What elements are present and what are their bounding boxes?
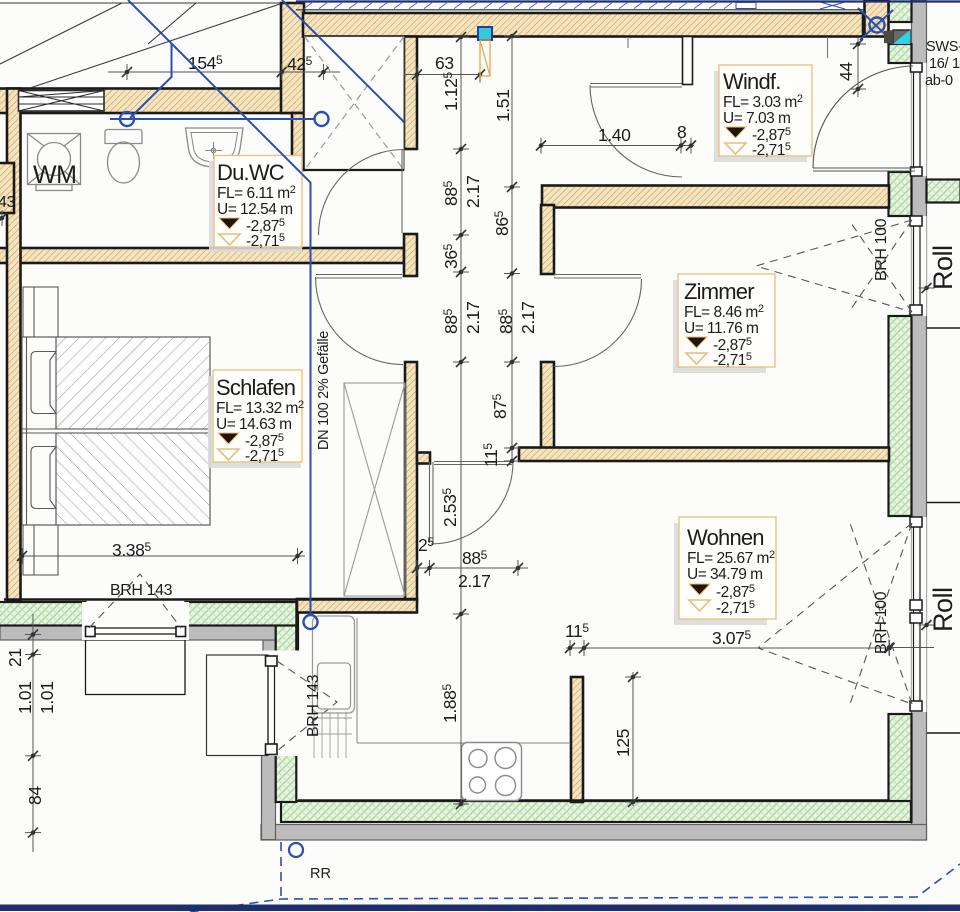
green west kitchen wall upper (276, 602, 297, 656)
svg-text:8: 8 (677, 122, 686, 142)
svg-text:BRH 100: BRH 100 (873, 591, 890, 654)
kitchen sink (311, 616, 355, 758)
svg-text:SWS-: SWS- (926, 39, 960, 55)
interior face lines (4, 600, 889, 801)
left chain vertical (32, 614, 34, 852)
svg-text:WM: WM (33, 161, 76, 189)
Roll texts (928, 245, 958, 632)
kitchen NW interior face (296, 612, 299, 657)
dim chain x512 vertical (511, 36, 513, 461)
door Windf./corridor (590, 84, 682, 178)
door Wohnen (from corridor) (430, 462, 514, 545)
mattress 1 hatched (56, 337, 210, 429)
nightstand bottom (23, 525, 58, 575)
mattress 2 hatched (56, 433, 210, 525)
thin partition Windf. (683, 37, 693, 85)
svg-text:Windf.: Windf. (723, 69, 781, 94)
wall W1 bathroom top (0, 89, 293, 114)
navy neighbour wall bottom (0, 905, 960, 912)
svg-text:DN 100 2% Gefälle: DN 100 2% Gefälle (316, 331, 332, 450)
dim line 63 (404, 74, 480, 76)
svg-text:63: 63 (435, 53, 454, 73)
neighbour separator lines right (927, 328, 960, 733)
grey band west kitchen wall (263, 640, 276, 656)
svg-text:44: 44 (836, 62, 856, 81)
wall W6 Zimmer top (542, 186, 889, 208)
neighbour wall line top left (0, 2, 281, 4)
svg-text:BRH 143: BRH 143 (305, 674, 322, 737)
svg-text:2.17: 2.17 (518, 302, 538, 334)
toilet (105, 130, 142, 184)
svg-text:BRH 143: BRH 143 (110, 582, 173, 599)
svg-text:16/ 1: 16/ 1 (929, 56, 960, 72)
entrance door leaf + swing (813, 167, 915, 169)
svg-text:BRH 100: BRH 100 (873, 218, 890, 281)
wall W5 Du.WC / Schlafen divider (0, 248, 404, 263)
Schlafen south wall east tan part (297, 599, 417, 613)
dim line 44 (857, 38, 859, 97)
label box Zimmer (673, 274, 775, 373)
svg-text:Zimmer: Zimmer (684, 279, 754, 304)
svg-text:FL= 6.11 m2: FL= 6.11 m2 (217, 184, 296, 202)
green bottom wall (281, 801, 911, 822)
label box Windf. (714, 65, 812, 162)
neighbour unit blue marks top (296, 0, 960, 2)
svg-text:U= 14.63 m: U= 14.63 m (216, 416, 292, 433)
Schlafen right wall (405, 362, 417, 602)
door Zimmer (554, 275, 642, 367)
bed frame (22, 337, 210, 525)
nightstand top (23, 287, 58, 337)
svg-text:125: 125 (613, 729, 633, 757)
door Schlafen (316, 275, 404, 365)
right margin texts (925, 39, 960, 89)
wall connector vertical at step (281, 3, 304, 113)
horizontal pipe in bathroom (110, 118, 314, 120)
grey band below Schlafen south wall (0, 626, 276, 641)
neighbour stair diagonals (0, 3, 122, 64)
label box Schlafen (208, 370, 304, 468)
wall W3 top right (303, 13, 863, 37)
svg-text:84: 84 (25, 786, 45, 805)
tan pillar top right with riser (865, 0, 889, 37)
dashed drain to RR (280, 842, 282, 899)
svg-text:U= 7.03 m: U= 7.03 m (723, 110, 790, 127)
windows: Zimmer window right (756, 216, 927, 316)
svg-text:Roll: Roll (928, 245, 958, 290)
svg-text:1.51: 1.51 (493, 90, 513, 122)
vent duct cyan + orange in corridor (478, 27, 492, 76)
svg-text:1.40: 1.40 (598, 125, 631, 145)
svg-text:2.17: 2.17 (463, 302, 483, 334)
vent cyan right wall (884, 30, 910, 44)
riser circle WM (120, 112, 134, 126)
svg-text:2.17: 2.17 (463, 176, 483, 208)
wall stub corridor/Zimmer upper (541, 205, 554, 274)
svg-text:RR: RR (310, 866, 331, 882)
svg-text:2.17: 2.17 (458, 571, 490, 591)
label box Du.WC (209, 156, 302, 253)
bottom wall interior face (298, 799, 889, 802)
svg-text:43: 43 (0, 194, 15, 211)
Schlafen floor line (4, 598, 417, 601)
window ticks right (889, 647, 934, 649)
green Schlafen south wall west part (0, 602, 86, 626)
windows: Wohnen window right (758, 517, 927, 712)
kitchen counter lines (357, 618, 570, 743)
pillow 1 (31, 352, 56, 414)
door Du.WC (swings NW) (319, 150, 405, 236)
svg-text:FL= 13.32 m2: FL= 13.32 m2 (216, 399, 304, 417)
svg-text:U= 12.54 m: U= 12.54 m (217, 201, 293, 218)
riser circle kitchen (304, 615, 318, 629)
wardrobe in Schlafen (344, 383, 405, 596)
T-cap at Du.WC/Schlafen doors (404, 234, 417, 276)
freestanding kitchen wall (571, 677, 583, 802)
green pier right top (889, 0, 912, 22)
wall strip left of shaft (292, 113, 304, 170)
washing machine WM (28, 134, 81, 191)
grey band bottom exterior (261, 825, 927, 841)
kitchen stove (462, 743, 522, 801)
diagonal B to shaft (282, 0, 404, 122)
svg-text:21: 21 (5, 648, 25, 667)
green Schlafen south wall east part (185, 602, 296, 626)
dim line 11.5 / 3.07.5 (566, 647, 893, 649)
left wall bathroom/Schlafen (7, 89, 21, 601)
riser circle top right (870, 18, 885, 33)
green pier right (Windf/Zimmer) with arm (889, 172, 912, 216)
riser circle shaft left (315, 112, 329, 126)
svg-text:Schlafen: Schlafen (216, 375, 295, 400)
dim line door Wohnen 88.5 (417, 567, 528, 569)
wall W7 corridor/Zimmer lower (541, 362, 554, 454)
green west kitchen wall lower (276, 755, 297, 802)
rotated dim texts (0, 62, 890, 805)
svg-text:U= 11.76 m: U= 11.76 m (684, 320, 758, 337)
dim line 3.38.5 (22, 555, 305, 557)
svg-text:1.01: 1.01 (37, 682, 57, 714)
windows: right wall entrance french door (628, 37, 927, 176)
pier W4 right of shaft (404, 37, 417, 150)
dim line 1.40 (541, 145, 694, 147)
svg-text:1.01: 1.01 (15, 682, 35, 714)
green corner pier bottom right (889, 714, 912, 822)
dim line 125 (632, 672, 634, 806)
svg-text:Wohnen: Wohnen (687, 525, 764, 550)
door nib west of Wohnen door (417, 453, 430, 464)
label box Wohnen (674, 517, 776, 625)
svg-text:Roll: Roll (928, 587, 958, 632)
wash basin (186, 128, 244, 167)
green block below cyan (889, 44, 912, 63)
sewer diagonal C + vertical DN100 (128, 0, 311, 615)
svg-text:Du.WC: Du.WC (217, 160, 285, 185)
svg-text:FL= 3.03 m2: FL= 3.03 m2 (723, 93, 803, 111)
left edge neighbour pier (0, 163, 14, 213)
windows: kitchen west window (207, 651, 338, 757)
branch to WM riser (130, 44, 172, 119)
dim chain x461 vertical (460, 37, 462, 804)
svg-text:FL= 8.46 m2: FL= 8.46 m2 (684, 303, 764, 321)
green pier right long (Zimmer/Wohnen) (889, 316, 912, 516)
svg-text:U= 34.79 m: U= 34.79 m (687, 566, 763, 583)
pillow 2 (31, 447, 56, 509)
svg-text:ab-0: ab-0 (925, 73, 953, 89)
dim line 154.5 / 42.5 (108, 71, 340, 73)
wall W8 Zimmer/Wohnen divider (519, 448, 889, 462)
svg-text:FL= 25.67 m2: FL= 25.67 m2 (687, 549, 775, 567)
